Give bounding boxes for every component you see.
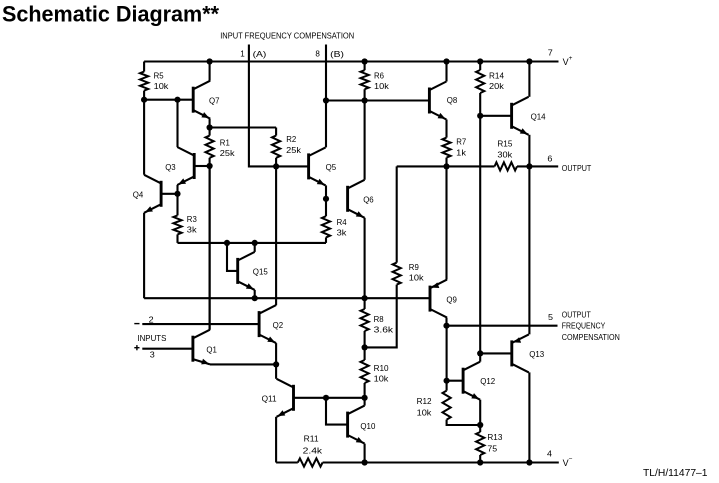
wire Q15 collector up to bus: [254, 243, 256, 252]
junction Q12 emitter / R12 / R13 node: [477, 422, 483, 428]
wire non-inverting input (pin 3): [142, 348, 193, 350]
resistor R4: [322, 199, 330, 243]
wire Q8 collector to rail: [445, 62, 447, 82]
svg-text:1: 1: [240, 49, 245, 59]
wire Q3 collector up: [176, 100, 178, 147]
wire Q13 collector down to rail: [528, 372, 530, 462]
junction Q5 emitter / Q6 base / R4: [323, 196, 329, 202]
svg-text:R11: R11: [304, 434, 319, 444]
transistor Q2: [259, 305, 276, 343]
wire Q7 emitter to R2 top: [210, 126, 277, 128]
wire Q13 emitter up to output line: [528, 166, 530, 334]
wire Q15 emitter down to lower bus: [254, 290, 256, 298]
wire Q14 collector to rail: [528, 62, 530, 97]
junction Q7 collector on rail: [207, 58, 213, 64]
junction Q7 emitter / R1 / R2 node: [207, 124, 213, 130]
svg-text:R2: R2: [286, 134, 296, 144]
wire bias bus (R3-R4 bottoms): [178, 242, 327, 244]
junction Q10 emitter on rail: [362, 459, 368, 465]
svg-text:(A): (A): [253, 49, 267, 59]
transistor Q9 (pnp): [430, 280, 447, 318]
wire Q3 emitter down: [176, 185, 178, 194]
svg-text:3k: 3k: [337, 228, 348, 238]
wire Q2 emitter down: [275, 343, 277, 364]
junction Q15 base on bus: [224, 240, 230, 246]
wire Q4 base: [161, 193, 177, 195]
wire Q14 base: [480, 115, 511, 117]
junction Q15 emitter on lower bus: [252, 295, 258, 301]
junction Q12 collector / Q13 base node: [477, 350, 483, 356]
svg-text:R1: R1: [220, 137, 230, 147]
wire Q11 collector up: [275, 364, 277, 378]
pin 1 (A) wire: [249, 45, 276, 167]
transistor Q7: [193, 81, 210, 119]
transistor Q12: [463, 362, 480, 400]
svg-text:20k: 20k: [489, 81, 505, 91]
wire R2 node to Q5 base: [276, 165, 309, 167]
svg-text:10k: 10k: [409, 273, 425, 283]
wire Q10 collector up: [364, 398, 366, 406]
label R10 10k: [374, 363, 390, 384]
junction R14 top on rail: [477, 58, 483, 64]
wire lower bus (Q4 emitter to Q9 base): [144, 297, 430, 299]
svg-text:Q8: Q8: [447, 95, 458, 105]
svg-text:3.6k: 3.6k: [374, 325, 394, 335]
plus sign: [134, 345, 139, 350]
wire Q7 emitter down: [209, 119, 211, 128]
wire pin8 node to Q8 base: [326, 99, 429, 101]
transistor Q8: [429, 82, 446, 120]
svg-text:Q9: Q9: [446, 294, 457, 304]
svg-text:75: 75: [487, 444, 497, 454]
label R12 10k: [417, 396, 433, 417]
svg-text:COMPENSATION: COMPENSATION: [562, 332, 620, 342]
wire V- rail (pin 4): [323, 461, 559, 463]
resistor R7 (below Q8 emitter): [442, 120, 450, 167]
wire Q7 collector to rail: [209, 62, 211, 81]
resistor R13: [476, 425, 484, 463]
wire Q12 base: [447, 380, 464, 382]
svg-text:3: 3: [150, 349, 155, 359]
svg-text:8: 8: [315, 49, 320, 59]
transistor Q14: [512, 97, 529, 135]
svg-text:OUTPUT: OUTPUT: [562, 309, 591, 319]
resistor R10: [361, 347, 369, 397]
wire Q5 collector up to pin8 node: [325, 101, 327, 148]
junction R13 bottom on rail: [477, 459, 483, 465]
svg-text:Q15: Q15: [253, 266, 268, 276]
junction Q8 collector on rail: [443, 58, 449, 64]
wire V+ rail (pin 7): [144, 60, 558, 62]
svg-text:5: 5: [548, 312, 553, 322]
svg-text:2: 2: [149, 314, 154, 324]
wire Q11 emitter down to rail: [275, 417, 277, 463]
svg-text:Schematic Diagram**: Schematic Diagram**: [2, 2, 219, 27]
resistor R3: [173, 194, 181, 243]
junction Q3 collector tap: [174, 97, 180, 103]
resistor R5: [140, 62, 148, 100]
wire Q15 base from bus: [227, 243, 238, 271]
resistor R9: [365, 166, 401, 347]
svg-text:R14: R14: [489, 70, 504, 80]
svg-text:FREQUENCY: FREQUENCY: [562, 321, 606, 331]
junction R10 bottom / Q10 collector: [362, 395, 368, 401]
resistor R6: [361, 62, 369, 101]
wire R14 node down to Q12/Q13 node: [479, 116, 481, 354]
svg-text:6: 6: [547, 154, 552, 164]
svg-text:R3: R3: [187, 214, 197, 224]
transistor Q10: [348, 406, 365, 444]
svg-text:R12: R12: [417, 396, 432, 406]
label R6 10k: [374, 70, 390, 91]
label R11 2.4k: [303, 434, 323, 456]
wire Q12 emitter down: [479, 400, 481, 425]
junction R1 bottom node: [207, 163, 213, 169]
wire Q9 emitter up to output line: [445, 166, 447, 279]
svg-text:10k: 10k: [374, 81, 390, 91]
V+ label: [563, 55, 573, 67]
resistor R12: [443, 381, 481, 425]
svg-text:R8: R8: [374, 314, 384, 324]
wire Q9 collector down: [445, 318, 447, 326]
wire Q5 emitter down: [325, 185, 327, 198]
junction R5/Q4 collector: [141, 97, 147, 103]
junction Q1/Q2 emitters / Q11 collector: [273, 361, 279, 367]
svg-text:INPUT FREQUENCY COMPENSATION: INPUT FREQUENCY COMPENSATION: [220, 31, 354, 41]
junction R8/R9/R10 node: [362, 344, 368, 350]
svg-text:10k: 10k: [417, 407, 433, 417]
svg-text:25k: 25k: [286, 145, 302, 155]
svg-text:INPUTS: INPUTS: [137, 333, 166, 343]
wire Q12 collector up: [479, 353, 481, 361]
wire R2 node down to Q2 collector: [275, 166, 277, 305]
junction R14 bottom / Q14 base: [477, 113, 483, 119]
wire R1 node down to Q1 collector: [209, 166, 211, 330]
wire Q6 collector up to R6 node: [364, 101, 366, 180]
wire Q10 emitter down: [364, 444, 366, 463]
svg-text:R13: R13: [487, 432, 502, 442]
svg-text:Q6: Q6: [363, 195, 374, 205]
junction Q9 collector on comp line: [443, 323, 449, 329]
svg-text:1k: 1k: [456, 148, 467, 158]
label R9 10k: [409, 262, 425, 283]
wire inverting input (pin 2): [142, 323, 259, 325]
svg-text:Q13: Q13: [529, 349, 544, 359]
svg-text:25k: 25k: [220, 148, 236, 158]
svg-text:R7: R7: [456, 137, 466, 147]
svg-text:TL/H/11477–1: TL/H/11477–1: [643, 468, 708, 479]
svg-text:3k: 3k: [187, 225, 198, 235]
svg-text:Q1: Q1: [206, 345, 217, 355]
wire Q4 emitter down: [143, 213, 145, 298]
svg-text:Q14: Q14: [531, 112, 546, 122]
svg-text:Q11: Q11: [262, 393, 277, 403]
pin 8 (B) wire: [325, 45, 327, 101]
resistor R15 (in output line): [495, 162, 518, 170]
svg-text:Q12: Q12: [480, 376, 495, 386]
wire Q14 emitter down to output: [528, 135, 530, 167]
junction Q13 collector on rail: [526, 459, 532, 465]
wire Q10 base link: [326, 398, 348, 425]
wire Q1 emitter line: [210, 363, 276, 365]
label R8 3.6k: [374, 314, 394, 335]
transistor Q5: [309, 147, 326, 185]
junction Q6 emitter / R8 on bus: [362, 295, 368, 301]
wire comp line (pin 5): [447, 325, 558, 327]
junction Q11 base tap: [323, 395, 329, 401]
label R4 3k: [337, 217, 348, 238]
label R5 10k: [154, 70, 170, 91]
wire R1 bottom to Q3 base: [194, 165, 209, 167]
svg-text:+: +: [569, 55, 573, 62]
resistor R14: [476, 62, 484, 116]
svg-text:Q10: Q10: [360, 421, 375, 431]
transistor Q13 (pnp): [512, 334, 529, 372]
svg-text:Q7: Q7: [209, 96, 220, 106]
transistor Q11: [277, 379, 294, 417]
label R14 20k: [489, 70, 505, 91]
junction R7 bottom / Q9 emitter on output line: [443, 163, 449, 169]
resistor R1: [206, 128, 214, 167]
svg-text:Q4: Q4: [133, 189, 144, 199]
svg-text:R4: R4: [337, 217, 347, 227]
label R1 25k: [220, 137, 236, 158]
svg-text:Q3: Q3: [165, 162, 176, 172]
svg-text:Q5: Q5: [326, 162, 337, 172]
wire Q11 base line: [294, 397, 365, 399]
junction Q3 emitter / Q4 base / R3: [174, 191, 180, 197]
label R13 75: [487, 432, 502, 454]
svg-text:R6: R6: [374, 70, 384, 80]
transistor Q1: [193, 330, 210, 365]
wire Q9 collector node down to Q12 base: [446, 326, 448, 381]
svg-text:30k: 30k: [497, 150, 513, 160]
wire output line (pin 6) left part: [397, 165, 495, 167]
svg-text:Q2: Q2: [273, 320, 284, 330]
svg-text:(B): (B): [330, 49, 344, 59]
transistor Q15: [238, 252, 255, 290]
svg-text:R9: R9: [409, 262, 419, 272]
svg-text:10k: 10k: [374, 373, 390, 383]
wire Q13 base: [480, 352, 512, 354]
wire R5 bottom to Q7 base: [144, 99, 193, 101]
transistor Q4: [144, 175, 161, 213]
junction pin 8 / Q5 collector: [323, 97, 329, 103]
svg-text:OUTPUT: OUTPUT: [562, 163, 592, 173]
V- label: [563, 456, 573, 468]
junction R6 bottom / Q6 collector: [362, 97, 368, 103]
wire output line (pin 6) right part: [517, 165, 558, 167]
transistor Q3: [177, 147, 194, 185]
svg-text:−: −: [569, 456, 573, 463]
junction Q15 collector on bus: [252, 240, 258, 246]
label R15 30k: [497, 139, 513, 160]
resistor R2: [272, 128, 280, 167]
junction Q12 base / R12 top: [444, 378, 450, 384]
minus sign: [134, 323, 139, 325]
junction R6 top on rail: [362, 58, 368, 64]
svg-text:10k: 10k: [154, 81, 170, 91]
label R2 25k: [286, 134, 302, 155]
junction R2 bottom / pin1 node: [273, 163, 279, 169]
svg-text:2.4k: 2.4k: [303, 445, 323, 455]
wire Q1 collector up to R1 node: [209, 166, 211, 330]
resistor R8: [361, 298, 369, 347]
svg-text:R5: R5: [154, 70, 164, 80]
junction Q14 emitter / Q13 emitter on output: [526, 163, 532, 169]
svg-text:4: 4: [547, 449, 552, 459]
resistor R11 (in bottom rail): [276, 458, 323, 466]
svg-text:R10: R10: [374, 363, 389, 373]
svg-text:R15: R15: [497, 139, 512, 149]
label R3 3k: [187, 214, 198, 235]
transistor Q6: [348, 180, 365, 218]
label R7 1k: [456, 137, 467, 158]
junction Q14 collector / pin 7: [526, 58, 532, 64]
wire Q4 collector up: [143, 100, 145, 175]
wire Q6 emitter down to bus: [364, 218, 366, 298]
svg-text:7: 7: [548, 48, 553, 58]
